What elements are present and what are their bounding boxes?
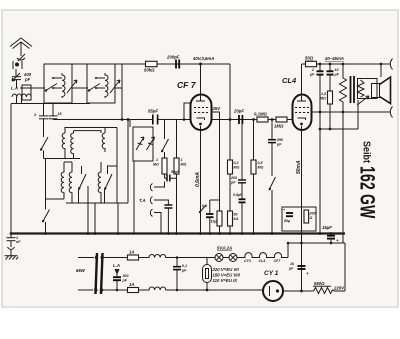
capacitor below bus at earth: [7, 234, 16, 248]
antenna plug connector: [13, 61, 22, 69]
svg-text:0,5µF: 0,5µF: [233, 193, 243, 197]
svg-text:50: 50: [234, 213, 238, 217]
svg-text:1: 1: [181, 158, 183, 162]
choke lower: [139, 287, 264, 290]
svg-text:200: 200: [230, 176, 237, 180]
svg-text:µF: µF: [288, 267, 294, 271]
switch mid2: [105, 166, 118, 203]
svg-text:300: 300: [123, 274, 129, 278]
stub gang to grid wire: [129, 120, 131, 128]
antenna coil: [12, 94, 31, 97]
switch hook to ground: [8, 247, 15, 250]
svg-text:55pF: 55pF: [148, 109, 158, 114]
svg-text:pF: pF: [230, 181, 236, 185]
svg-text:1: 1: [156, 158, 158, 162]
svg-text:220 V=EU VII: 220 V=EU VII: [212, 267, 240, 272]
speaker magnet: [372, 84, 380, 98]
svg-text:550Ω: 550Ω: [314, 281, 325, 286]
tuning cap 2: [147, 137, 155, 150]
grid leak vertical with caps: [241, 124, 243, 234]
svg-text:1A: 1A: [129, 250, 135, 255]
resistor 1.5M vertical: [329, 75, 331, 91]
CF7 anode: [196, 64, 205, 101]
output transformer core: [350, 76, 352, 103]
svg-text:550: 550: [277, 138, 283, 142]
switch in box2: [88, 84, 100, 92]
cathode network box CL4: [282, 207, 316, 231]
svg-text:µF: µF: [181, 269, 187, 273]
heater bump CF7: [274, 253, 282, 258]
coil inside: [358, 80, 365, 97]
barretter: [206, 258, 208, 265]
antenna: [10, 38, 32, 56]
CF7 grids: [194, 108, 208, 113]
link wire to coil block: [44, 158, 81, 160]
svg-text:40–45mA: 40–45mA: [324, 56, 344, 61]
antenna coil box: [22, 85, 31, 100]
coil U2: [71, 133, 74, 155]
trimmer arrow box1: [67, 80, 77, 93]
svg-text:0,2: 0,2: [234, 161, 239, 165]
cap 10uF vertical: [329, 64, 331, 71]
svg-text:50pF: 50pF: [171, 170, 180, 174]
coupling cap 50pF to pickup: [164, 174, 166, 178]
speaker top feed: [380, 64, 382, 77]
node 40V: [199, 63, 202, 66]
svg-text:T.A: T.A: [139, 198, 146, 203]
vertical from cap to bus: [176, 178, 178, 233]
cathode switch CF7: [199, 205, 206, 213]
ground bus (main earth rail): [11, 232, 345, 234]
wire antenna cap into box1: [20, 87, 45, 89]
resistor 0.1M on coupling: [257, 117, 268, 122]
CF7 screen wire right: [212, 112, 220, 211]
svg-text:50kΩ: 50kΩ: [144, 68, 155, 73]
svg-text:50Ω: 50Ω: [305, 56, 314, 61]
coil L2: [69, 168, 72, 203]
svg-text:Seibt: Seibt: [360, 141, 372, 164]
top anode wire left section: [44, 63, 230, 65]
secondary bottom wire: [320, 100, 358, 129]
svg-text:1A: 1A: [129, 282, 135, 287]
capacitor 3nF vertical: [39, 104, 48, 119]
coil in box2: [105, 73, 108, 98]
cap 50uF: [286, 213, 293, 216]
switch above 1M resistors: [162, 120, 169, 159]
svg-text:0,8: 0,8: [258, 161, 263, 165]
svg-text:162 GW: 162 GW: [356, 166, 381, 219]
capacitor 400pF: [12, 77, 21, 88]
coil in box1: [62, 73, 65, 98]
output terminal top: [390, 59, 392, 70]
coil U1: [62, 133, 65, 152]
corner vertical from top wire: [121, 64, 123, 120]
feedback vertical with 550pF and switch: [271, 120, 273, 140]
resistor 1M b: [176, 120, 178, 179]
resistor 550 zigzag: [314, 288, 346, 294]
CY1 output wire with 550ohm: [283, 290, 314, 292]
resistor 50k lower: [228, 211, 233, 226]
cap 20pF: [239, 115, 242, 124]
fuse 1A upper: [128, 255, 139, 260]
pickup jack 1: [150, 182, 164, 191]
interference cap across mains: [176, 258, 178, 291]
resistor 1M a: [162, 158, 167, 174]
svg-text:25V: 25V: [212, 106, 222, 111]
trimmer arrow box2: [110, 80, 120, 93]
svg-text:µF: µF: [334, 73, 340, 77]
fuse 1A lower: [128, 288, 139, 293]
svg-text:MΩ: MΩ: [153, 163, 159, 167]
ground: [5, 250, 19, 260]
svg-text:MΩ: MΩ: [258, 166, 264, 170]
16uF lower cap: [298, 266, 306, 269]
heater bump CL4: [259, 253, 267, 258]
rectifier tube CY1: [263, 281, 283, 301]
svg-text:CF7: CF7: [274, 259, 282, 263]
svg-text:0,1MΩ: 0,1MΩ: [254, 112, 268, 117]
svg-text:3: 3: [34, 113, 36, 117]
RF coil box 1: [44, 64, 72, 103]
field coil zigzag: [340, 64, 347, 243]
speaker hum coil box: [358, 79, 378, 99]
cap 2uF vertical: [319, 64, 321, 71]
svg-text:5V,0,2A: 5V,0,2A: [217, 246, 232, 251]
tube CL4: [293, 95, 312, 131]
svg-text:pF: pF: [276, 143, 282, 147]
svg-text:µF: µF: [309, 73, 315, 77]
svg-text:CY1: CY1: [244, 259, 251, 263]
svg-text:110 V=EU IX: 110 V=EU IX: [213, 278, 239, 283]
mains wires to fuses: [102, 258, 128, 291]
node grid wire: [121, 118, 124, 121]
svg-text:16µF: 16µF: [322, 225, 332, 230]
CL4 cathode: [298, 118, 306, 120]
svg-text:20pF: 20pF: [233, 109, 244, 114]
resistor 1M on coupling: [276, 117, 287, 122]
B+ lower rail: [288, 243, 345, 291]
svg-text:200pF: 200pF: [166, 55, 180, 60]
cap 0.5uF blob: [239, 199, 246, 202]
pickup jack 2: [150, 197, 168, 205]
svg-text:CF 7: CF 7: [177, 80, 197, 90]
CF7 cathode to bus: [200, 126, 202, 234]
svg-text:kΩ: kΩ: [234, 217, 239, 221]
mains plug: [96, 253, 98, 294]
resistor 50k on top wire: [146, 61, 158, 66]
taps box1: [53, 78, 62, 88]
svg-text:40V,0,6mA: 40V,0,6mA: [192, 56, 214, 61]
capacitor 200pF on top wire: [176, 60, 179, 69]
CL4 grids: [295, 108, 309, 113]
bottom wire of coil block: [46, 120, 129, 204]
CL4 cathode vertical: [301, 126, 303, 291]
node: [44, 232, 47, 235]
svg-text:MΩ: MΩ: [320, 97, 326, 101]
lower wave switch to bus: [43, 159, 50, 234]
anode feed vertical with resistor 0.2M: [229, 64, 231, 160]
CF7 left grid hook: [184, 103, 191, 120]
svg-text:L.A: L.A: [113, 263, 120, 268]
svg-text:10: 10: [335, 68, 339, 72]
U coils to mid wire: [65, 152, 74, 159]
resistor 200ohm: [304, 210, 309, 223]
L coil top stubs: [64, 162, 101, 168]
capacitor 55pF on grid wire: [153, 115, 158, 125]
coupling wire CF7 to CL4: [212, 119, 293, 121]
svg-text:10µ: 10µ: [211, 220, 217, 224]
svg-text:0,1: 0,1: [182, 264, 187, 268]
antenna switch: [17, 54, 25, 61]
left earth branch vertical: [10, 104, 12, 234]
16uF upper cap: [330, 234, 332, 236]
coil block verticals to bus: [88, 161, 134, 234]
tuning gang box: [133, 127, 153, 161]
pickup jack 3: [150, 209, 161, 234]
svg-text:2: 2: [311, 68, 314, 72]
svg-text:0,1: 0,1: [202, 204, 207, 208]
svg-text:150 V=EU VIII: 150 V=EU VIII: [213, 273, 241, 278]
node at bus left: [10, 232, 13, 235]
wire coil to bus line: [11, 97, 90, 104]
svg-text:65W: 65W: [76, 268, 86, 273]
switch in box1: [45, 84, 57, 92]
oscillator coil top row wires: [65, 128, 117, 134]
svg-text:50mA: 50mA: [296, 160, 302, 174]
B+ top wire right section: [302, 63, 391, 65]
cathode cap electrolytic: [206, 214, 214, 217]
svg-text:MΩ: MΩ: [234, 166, 240, 170]
wave band switch upper left: [41, 119, 49, 159]
switch mid1: [79, 166, 87, 203]
wire box1 to box2: [72, 87, 88, 89]
capacitor 15 vertical: [49, 104, 58, 120]
svg-text:L.A: L.A: [11, 86, 18, 91]
svg-text:pF: pF: [24, 77, 31, 82]
tube CF7: [191, 95, 212, 131]
svg-text:CL4: CL4: [259, 259, 266, 263]
choke upper: [139, 255, 208, 258]
resistor 50ohm: [306, 61, 317, 66]
output terminal bottom: [390, 107, 392, 118]
speaker arrow: [357, 96, 369, 105]
svg-text:Ω: Ω: [309, 216, 313, 220]
svg-text:50µ: 50µ: [284, 219, 290, 223]
heater bump CY1: [245, 253, 253, 258]
RF coil box 2: [87, 64, 115, 103]
grid wire (tuned circuit to CF7): [53, 119, 191, 121]
heater wires: [207, 243, 288, 258]
screen resistor box: [217, 211, 222, 226]
tuning cap 1: [136, 137, 144, 150]
coil U3: [102, 133, 105, 152]
svg-text:220V: 220V: [333, 286, 345, 291]
svg-text:0,6mA: 0,6mA: [195, 172, 201, 187]
coil L1: [61, 168, 64, 199]
divider vertical 0.8M: [253, 120, 255, 161]
wire antenna to cap: [15, 69, 17, 76]
svg-text:CL4: CL4: [282, 76, 297, 85]
svg-text:CY 1: CY 1: [264, 270, 279, 277]
mains lead left: [78, 258, 94, 291]
CF7 cathode: [197, 118, 205, 120]
speaker return wire: [312, 111, 391, 113]
CL4 anode: [297, 64, 306, 101]
svg-text:200: 200: [309, 212, 316, 216]
variable arrow on antenna input: [12, 73, 20, 81]
wire box2 to corner: [115, 87, 122, 89]
svg-text:MΩ: MΩ: [181, 163, 187, 167]
svg-text:pF: pF: [122, 279, 128, 283]
coil L3: [98, 168, 101, 203]
speaker cone: [380, 77, 391, 104]
svg-text:1MΩ: 1MΩ: [274, 124, 284, 129]
taps box2: [96, 78, 105, 88]
cap at jack2: [164, 205, 172, 208]
